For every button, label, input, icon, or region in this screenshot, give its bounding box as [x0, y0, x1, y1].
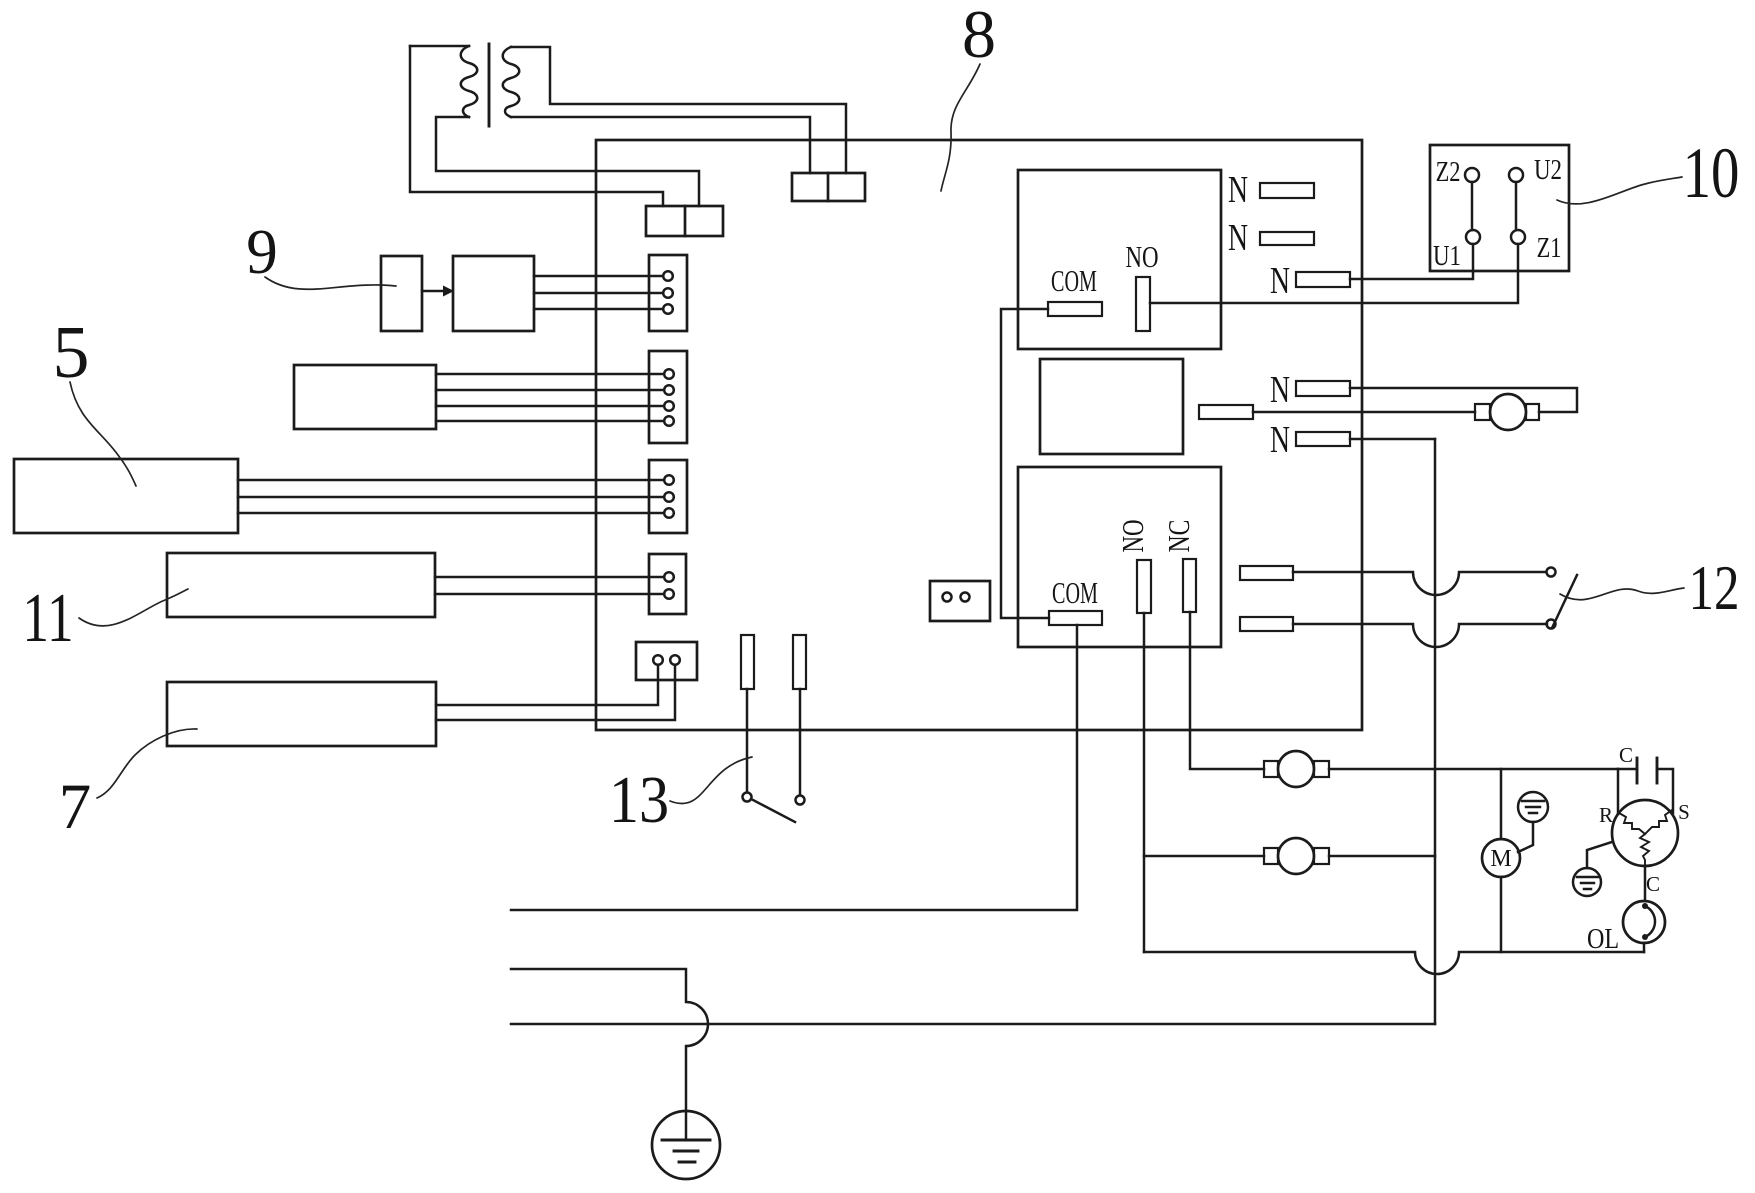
connector CN-B	[649, 351, 687, 443]
relay RL2 NC terminal	[1183, 559, 1196, 612]
svg-text:11: 11	[22, 580, 73, 657]
connector CN-C	[649, 460, 687, 533]
svg-text:13: 13	[609, 762, 669, 837]
wire RL2 NO down	[1143, 613, 1146, 952]
wire RL1 NO to Z1	[1150, 244, 1518, 303]
svg-text:8: 8	[962, 0, 996, 72]
svg-text:COM: COM	[1051, 264, 1097, 298]
fuse resistor N1	[1260, 183, 1314, 198]
controller board box 8	[596, 140, 1362, 730]
ground symbol G2	[1573, 868, 1601, 896]
protector P2 body	[1278, 838, 1314, 874]
fan motor FM left tab	[1475, 404, 1490, 420]
device box 7	[167, 682, 436, 746]
svg-text:10: 10	[1683, 134, 1740, 214]
wire box5 to CN-C pin3	[238, 512, 664, 515]
compressor winding C	[1640, 834, 1649, 866]
wire 9b to CN-A pin2	[534, 292, 663, 295]
ground symbol G1	[1518, 792, 1548, 822]
svg-text:5: 5	[53, 312, 90, 394]
svg-text:S: S	[1678, 800, 1690, 824]
link U2-Z1	[1515, 182, 1518, 230]
relay RL2 box	[1018, 467, 1221, 647]
wire N5 to node V	[1350, 438, 1435, 441]
wire NO run to OL with hop	[1144, 952, 1644, 974]
leader 12	[1560, 588, 1684, 600]
wire display to CN-B pin4	[436, 420, 664, 423]
relay RL1 NO terminal	[1136, 277, 1150, 331]
leader 5	[70, 382, 136, 486]
relay RL2 COM terminal	[1049, 611, 1102, 625]
protector P1 right tab	[1314, 761, 1329, 777]
wire terminal to fan motor	[1253, 411, 1475, 414]
wire display to CN-B pin2	[436, 389, 664, 392]
transformer T secondary coil	[503, 47, 520, 117]
terminal block 10 box	[1430, 145, 1569, 271]
svg-text:N: N	[1270, 419, 1290, 461]
wire OL to bottom run	[1643, 943, 1646, 952]
terminal Z1	[1511, 230, 1525, 244]
svg-text:9: 9	[246, 217, 278, 287]
display box (4-wire)	[294, 365, 436, 429]
wire M bottom	[1500, 877, 1503, 952]
link Z2-U1	[1471, 182, 1474, 230]
wire box7 to CN-E pin2	[436, 665, 675, 720]
svg-text:C: C	[1646, 872, 1660, 896]
wire box5 to CN-C pin2	[238, 496, 664, 499]
svg-text:7: 7	[59, 771, 92, 843]
terminal U1	[1466, 230, 1480, 244]
wire 9b to CN-A pin3	[534, 308, 663, 311]
svg-text:U1: U1	[1433, 240, 1461, 272]
wire capacitor to S	[1657, 769, 1673, 813]
transformer T primary coil	[461, 46, 478, 117]
wire RL2 COM to mains L	[511, 625, 1077, 910]
relay RL2 NO terminal	[1137, 560, 1151, 613]
aux motor M body	[1482, 839, 1520, 877]
OL bottom dot	[1642, 934, 1648, 940]
protector P2 left tab	[1264, 848, 1278, 864]
leader 13	[670, 757, 752, 804]
svg-text:NO: NO	[1116, 519, 1150, 552]
wire vertical node V	[1434, 439, 1437, 1024]
fuse F1	[741, 635, 754, 689]
switch 12 blade	[1552, 575, 1577, 628]
wire RL1 COM to RL2 COM	[1001, 309, 1049, 618]
switch 13 left contact	[743, 793, 752, 802]
wire box11 to CN-D pin2	[435, 593, 664, 596]
fuse resistor N5	[1296, 432, 1350, 446]
svg-text:N: N	[1270, 260, 1290, 302]
transformer T primary left wire	[410, 46, 663, 206]
wire G2 to compressor	[1587, 842, 1612, 868]
OL top dot	[1642, 903, 1648, 909]
wire secondary top to connector K1	[511, 47, 846, 173]
wire C to OL	[1644, 866, 1647, 901]
leader 10	[1557, 177, 1682, 204]
switch 12 lower contact	[1547, 620, 1556, 629]
wire F2 to switch 13	[799, 689, 802, 795]
svg-text:M: M	[1490, 846, 1511, 872]
wire display to CN-B pin3	[436, 405, 664, 408]
relay RL1 COM terminal	[1048, 302, 1102, 316]
leader 8	[941, 64, 980, 191]
wire G1 to M	[1518, 822, 1533, 852]
wire branch to start winding loop	[1144, 855, 1264, 858]
switch 13 blade	[753, 800, 795, 822]
device box 5	[14, 459, 238, 533]
wire box7 to CN-E pin1	[436, 665, 658, 705]
svg-text:N: N	[1270, 369, 1290, 411]
svg-text:NC: NC	[1161, 520, 1196, 553]
svg-text:U2: U2	[1534, 154, 1562, 186]
module box 9b	[453, 256, 534, 331]
svg-text:N: N	[1228, 217, 1248, 259]
fan feed terminal	[1199, 405, 1253, 419]
wire primary top	[410, 45, 469, 48]
svg-text:NO: NO	[1125, 240, 1158, 274]
wire P1 to compressor node	[1329, 768, 1618, 771]
wire display to CN-B pin1	[436, 373, 664, 376]
wire RL2 lower contact to switch 12	[1293, 624, 1547, 647]
switch 12 upper contact	[1547, 568, 1556, 577]
relay RL2 contact tab lower	[1240, 617, 1293, 631]
relay RL1 box	[1018, 170, 1221, 349]
fuse resistor N4	[1296, 381, 1350, 396]
capacitor C plates	[1618, 768, 1637, 771]
wire P2 to node V	[1329, 855, 1435, 858]
wire primary bottom to connector K2	[436, 117, 699, 206]
switch 13 right contact	[796, 796, 805, 805]
wire secondary bottom to connector K1	[511, 117, 810, 173]
relay RL2 contact tab upper	[1240, 566, 1293, 580]
wire RL2 upper contact to switch 12	[1293, 572, 1546, 595]
terminal U2	[1509, 168, 1523, 182]
wire M top	[1500, 769, 1503, 839]
protector P1 left tab	[1264, 761, 1278, 777]
svg-text:R: R	[1599, 803, 1613, 827]
protector P1 body	[1278, 751, 1314, 787]
svg-text:OL: OL	[1587, 923, 1619, 954]
connector K2	[646, 206, 723, 236]
sensor box 9a	[381, 256, 422, 331]
arrow 9a to 9b	[422, 290, 444, 293]
wire box5 to CN-C pin1	[238, 479, 664, 482]
wire box11 to CN-D pin1	[435, 576, 664, 579]
overload protector OL body	[1623, 901, 1665, 943]
terminal Z2	[1465, 168, 1479, 182]
wire N4 to fan motor	[1350, 388, 1577, 412]
wire F1 to switch 13	[746, 689, 749, 792]
svg-text:Z2: Z2	[1436, 157, 1461, 188]
fan motor FM body	[1490, 394, 1526, 430]
device box 11	[167, 553, 435, 617]
protector P2 right tab	[1314, 848, 1329, 864]
wire 9b to CN-A pin1	[534, 275, 663, 278]
wire mains E with hop to ground	[511, 969, 708, 1140]
jumper block (2 holes)	[930, 581, 990, 621]
ground symbol PE	[652, 1111, 720, 1179]
leader 11	[79, 589, 188, 626]
transformer T core	[488, 44, 491, 126]
compressor winding S	[1645, 810, 1672, 834]
leader 9	[265, 277, 396, 289]
wire N3 to U1	[1350, 244, 1473, 279]
wire node to R	[1617, 769, 1620, 814]
OL bimetal arc	[1645, 906, 1655, 937]
fuse F2	[793, 635, 806, 689]
leader 7	[97, 729, 197, 798]
connector CN-E	[636, 642, 697, 680]
svg-text:C: C	[1619, 743, 1633, 767]
svg-text:12: 12	[1688, 554, 1739, 623]
fuse resistor N2	[1260, 232, 1314, 245]
wire mains N bottom	[511, 1023, 1435, 1026]
svg-text:COM: COM	[1052, 576, 1098, 610]
wire RL2 NC down	[1190, 612, 1264, 769]
svg-text:N: N	[1228, 169, 1248, 211]
connector CN-D	[649, 554, 686, 614]
compressor motor body	[1612, 800, 1678, 866]
svg-text:Z1: Z1	[1537, 233, 1562, 264]
relay coil middle box	[1040, 359, 1183, 454]
fuse resistor N3	[1296, 272, 1350, 287]
connector K1	[792, 173, 865, 201]
fan motor FM right tab	[1526, 404, 1539, 420]
compressor winding R	[1619, 813, 1645, 834]
connector CN-A	[649, 255, 687, 331]
